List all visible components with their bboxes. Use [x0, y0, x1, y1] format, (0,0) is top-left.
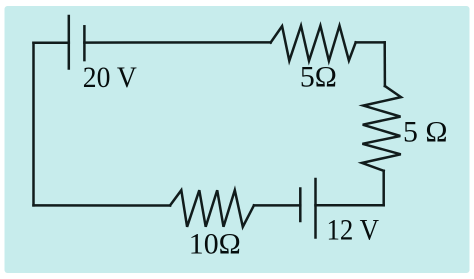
- wire left vertical: [32, 43, 35, 206]
- battery V2 long plate: [314, 179, 317, 238]
- svg-text:5 Ω: 5 Ω: [403, 115, 448, 148]
- wire top-right segment: [356, 41, 385, 44]
- wire top-middle segment: [84, 41, 270, 44]
- wire bottom-middle segment: [254, 204, 300, 207]
- wire right vertical lower: [382, 171, 385, 206]
- resistor R1 5ohm zigzag: [271, 26, 356, 61]
- svg-text:10Ω: 10Ω: [189, 227, 241, 260]
- resistor R2 5ohm vertical zigzag: [362, 86, 401, 171]
- battery V2 short plate: [299, 189, 302, 222]
- wire bottom-right segment: [316, 204, 384, 207]
- svg-text:12 V: 12 V: [327, 213, 380, 246]
- battery V1 short plate: [83, 26, 86, 60]
- wire bottom-left segment: [34, 204, 171, 207]
- wire top-left segment: [34, 42, 69, 45]
- svg-text:20 V: 20 V: [83, 61, 137, 94]
- battery V1 long plate: [68, 16, 71, 69]
- svg-text:5Ω: 5Ω: [300, 60, 337, 93]
- resistor R3 10ohm zigzag: [170, 190, 254, 227]
- wire right vertical upper: [383, 42, 386, 86]
